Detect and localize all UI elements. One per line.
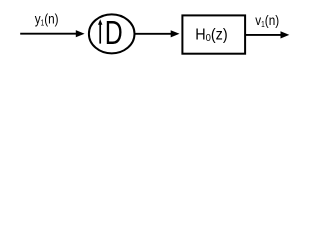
upsampler ellipse U1 (89, 14, 135, 53)
wire output (246, 34, 282, 36)
label H0(z) (195, 26, 227, 44)
label D inside ellipse (105, 14, 123, 51)
arrowhead input (76, 30, 85, 37)
svg-text:v1(n): v1(n) (255, 12, 279, 29)
filter box H0(z) (182, 15, 245, 53)
arrowhead output (281, 31, 290, 38)
label v1(n) (255, 12, 279, 29)
wire ellipse to box (135, 33, 173, 35)
svg-text:H0(z): H0(z) (195, 26, 227, 44)
label y1(n) (35, 11, 59, 28)
wire input (20, 33, 77, 35)
arrowhead into box (171, 30, 180, 37)
svg-text:y1(n): y1(n) (35, 11, 59, 28)
svg-text:D: D (105, 14, 123, 51)
up-arrow inside ellipse (99, 24, 101, 44)
